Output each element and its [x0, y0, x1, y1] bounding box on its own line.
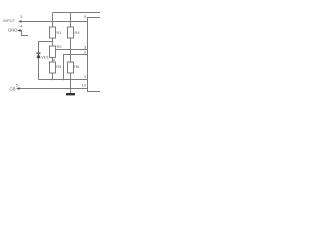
svg-text:R6: R6	[74, 64, 80, 69]
svg-text:4: 4	[20, 25, 22, 29]
svg-text:VD1: VD1	[41, 55, 49, 60]
svg-text:R1: R1	[57, 30, 63, 35]
svg-text:3: 3	[84, 44, 87, 49]
svg-text:R4: R4	[75, 30, 81, 35]
svg-text:R5: R5	[56, 64, 62, 69]
svg-text:1: 1	[84, 75, 86, 79]
svg-text:9: 9	[84, 14, 87, 19]
svg-text:2: 2	[84, 50, 87, 55]
svg-text:10: 10	[82, 83, 86, 87]
svg-text:INPUT: INPUT	[3, 18, 16, 23]
svg-text:GND: GND	[8, 28, 17, 33]
svg-text:R2: R2	[57, 44, 63, 49]
svg-text:3: 3	[20, 15, 22, 19]
svg-text:5: 5	[16, 84, 18, 88]
